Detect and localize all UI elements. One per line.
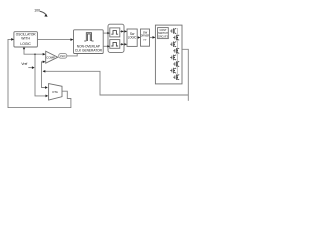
- svg-text:WITH: WITH: [21, 37, 30, 41]
- svg-text:100: 100: [34, 9, 40, 13]
- svg-text:OTA: OTA: [52, 90, 58, 94]
- svg-text:Vref: Vref: [21, 62, 27, 66]
- svg-text:LOGIC: LOGIC: [20, 42, 31, 46]
- svg-text:VLO: VLO: [60, 54, 66, 58]
- svg-text:COMP: COMP: [46, 55, 55, 59]
- svg-text:▹▹: ▹▹: [143, 38, 147, 42]
- svg-text:LOGIC: LOGIC: [128, 36, 137, 40]
- svg-text:CLK GENERATOR: CLK GENERATOR: [75, 49, 103, 53]
- svg-text:CIRCUITS: CIRCUITS: [158, 35, 168, 38]
- svg-text:NON-OVERLAP: NON-OVERLAP: [77, 44, 100, 48]
